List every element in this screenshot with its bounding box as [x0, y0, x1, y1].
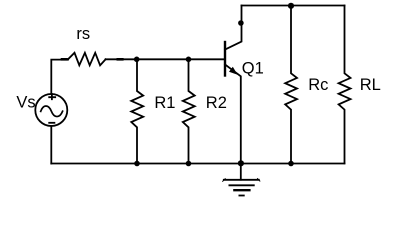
svg-text:Rc: Rc: [308, 76, 328, 94]
svg-text:R2: R2: [206, 94, 227, 112]
svg-text:Q1: Q1: [242, 59, 264, 77]
svg-text:R1: R1: [154, 94, 175, 112]
svg-text:Vs: Vs: [16, 94, 35, 112]
svg-text:rs: rs: [76, 25, 90, 43]
svg-text:RL: RL: [360, 76, 381, 94]
